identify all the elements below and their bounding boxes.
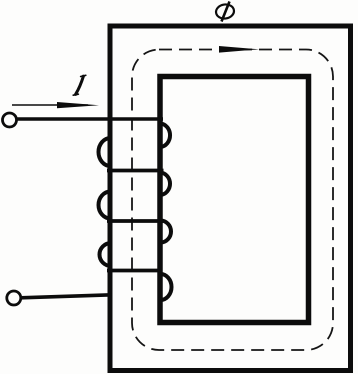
current arrowhead xyxy=(57,102,99,108)
flux path dashed loop xyxy=(132,50,333,351)
coil wire 4 xyxy=(107,269,161,273)
I label xyxy=(73,75,86,95)
coil right bump 1 xyxy=(161,124,171,148)
bottom terminal circle xyxy=(7,291,21,305)
coil left bump 3 xyxy=(100,243,112,266)
top lead / first coil wire xyxy=(17,117,164,121)
coil left bump 2 xyxy=(99,192,111,219)
core outer outline xyxy=(110,26,351,371)
coil right bump 3 xyxy=(161,221,171,243)
current arrow line xyxy=(12,104,88,106)
bottom lead xyxy=(21,295,112,298)
top terminal circle xyxy=(3,113,17,127)
coil wire 3 xyxy=(107,219,163,223)
core inner window outline xyxy=(160,77,309,323)
flux arrow on top dashed line xyxy=(219,46,259,53)
coil right bump 4 xyxy=(161,274,172,300)
coil wire 2 xyxy=(107,169,164,173)
coil left bump 1 xyxy=(99,138,111,166)
coil right bump 2 xyxy=(161,173,171,196)
phi label xyxy=(215,2,235,22)
